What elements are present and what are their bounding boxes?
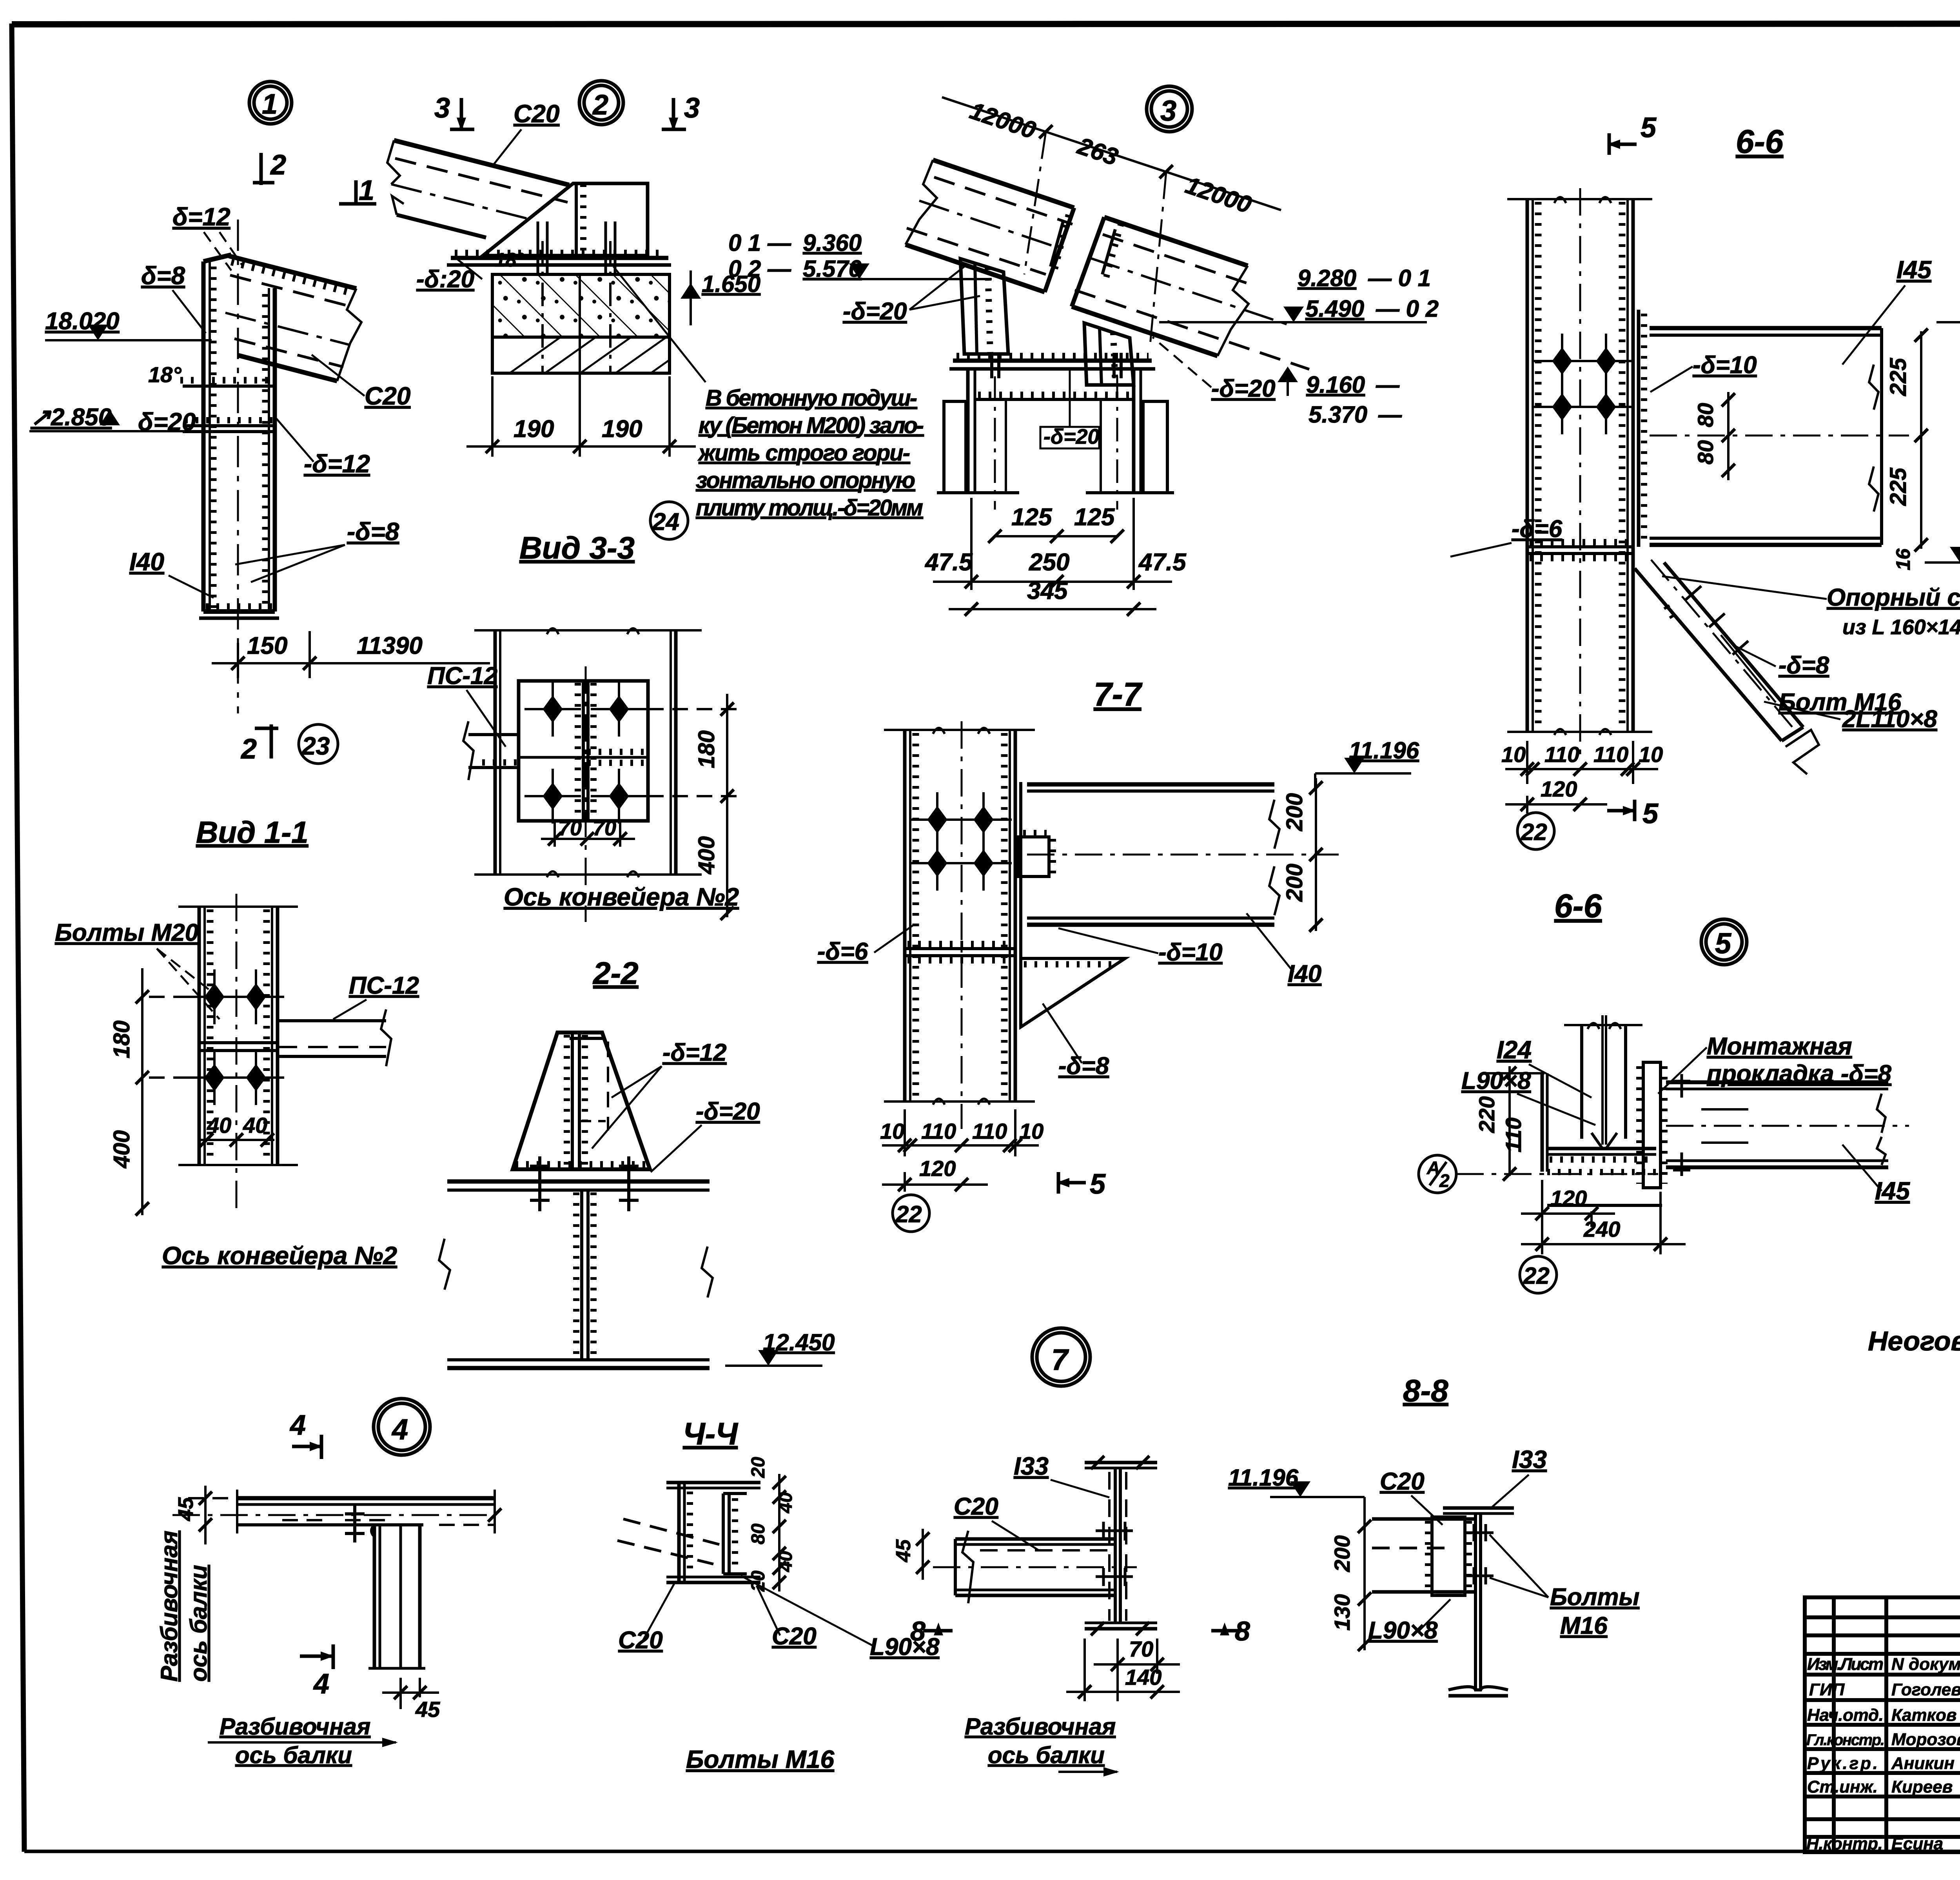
column bottom — [199, 606, 279, 618]
beam I45 — [1650, 328, 1909, 545]
svg-text:Болты М20: Болты М20 — [55, 919, 198, 946]
section mark 2 top — [253, 153, 274, 185]
svg-text:110: 110 — [1544, 742, 1579, 767]
svg-text:1: 1 — [359, 175, 374, 206]
svg-text:ось балки: ось балки — [988, 1742, 1105, 1768]
svg-text:δ=8: δ=8 — [141, 261, 185, 290]
svg-text:345: 345 — [1027, 577, 1068, 604]
svg-text:А: А — [1426, 1158, 1440, 1178]
column I40 — [203, 220, 275, 713]
dims 190 190 — [466, 274, 696, 457]
member from left — [463, 721, 519, 780]
connection plate hatched — [1428, 1517, 1469, 1595]
svg-text:110: 110 — [1593, 742, 1628, 767]
svg-text:23: 23 — [301, 732, 330, 760]
svg-text:40: 40 — [775, 1492, 796, 1513]
anchor bolts — [538, 221, 615, 372]
svg-text:8-8: 8-8 — [1403, 1373, 1448, 1408]
svg-text:-δ=20: -δ=20 — [843, 298, 907, 325]
svg-text:N докум.: N докум. — [1891, 1655, 1960, 1674]
svg-text:24: 24 — [652, 508, 679, 535]
inclined beam — [387, 140, 569, 238]
svg-text:I33: I33 — [1512, 1445, 1547, 1474]
svg-text:Неоговоренные болты - М20.: Неоговоренные болты - М20. — [1868, 1326, 1960, 1356]
gusset under beam — [1021, 958, 1125, 1027]
base plate — [447, 253, 671, 265]
svg-text:4: 4 — [391, 1413, 408, 1446]
top dimension line 12000 / 263 / 12000 — [942, 97, 1281, 210]
dims 47.5 250 47.5 — [933, 498, 1172, 590]
svg-text:0 1 —: 0 1 — — [728, 230, 791, 256]
bottom dims 120 240 — [1521, 1180, 1686, 1254]
dims 70 140 — [1066, 1639, 1180, 1701]
svg-text:190: 190 — [514, 416, 554, 443]
section mark 5 top — [1609, 133, 1637, 155]
svg-text:ось балки: ось балки — [185, 1565, 212, 1682]
A/2 axis — [1419, 1155, 1456, 1193]
svg-text:-δ=8: -δ=8 — [1779, 652, 1829, 679]
svg-text:2: 2 — [240, 733, 257, 765]
svg-text:18°: 18° — [495, 249, 525, 271]
svg-text:I45: I45 — [1896, 256, 1932, 284]
svg-text:7-7: 7-7 — [1094, 676, 1143, 713]
bolts — [524, 682, 581, 737]
connection square — [1018, 833, 1053, 876]
svg-text:22: 22 — [1523, 1263, 1550, 1289]
svg-text:ГИП: ГИП — [1809, 1680, 1845, 1699]
svg-text:-δ=12: -δ=12 — [662, 1039, 727, 1066]
svg-text:80: 80 — [748, 1523, 769, 1544]
svg-text:120: 120 — [919, 1156, 956, 1181]
svg-text:Вид 3-3: Вид 3-3 — [519, 530, 635, 565]
dims right 20 40 80 40 20 — [778, 1474, 780, 1591]
node circle 4 — [374, 1399, 430, 1455]
circle 22 — [1520, 1256, 1557, 1293]
svg-text:400: 400 — [694, 836, 719, 875]
bolts — [1466, 1524, 1494, 1584]
svg-text:400: 400 — [109, 1130, 134, 1169]
svg-text:-δ=20: -δ=20 — [1044, 425, 1100, 448]
svg-text:200: 200 — [1282, 793, 1307, 831]
svg-text:9.280: 9.280 — [1298, 265, 1356, 291]
svg-text:120: 120 — [1550, 1186, 1587, 1210]
circle 22 — [893, 1195, 929, 1232]
svg-text:— 0 1: — 0 1 — [1368, 265, 1431, 291]
svg-text:-δ=10: -δ=10 — [1693, 352, 1757, 379]
svg-text:9.160: 9.160 — [1306, 372, 1365, 398]
dim 345 — [949, 608, 1156, 610]
node circle 1 — [249, 82, 292, 124]
section mark 4 bottom — [300, 1644, 333, 1669]
svg-text:3: 3 — [1160, 94, 1176, 127]
svg-text:70: 70 — [558, 817, 582, 840]
svg-text:—: — — [1378, 401, 1402, 428]
svg-text:Киреев: Киреев — [1891, 1777, 1953, 1797]
svg-text:5: 5 — [1715, 927, 1732, 960]
bolts on flange — [530, 1156, 639, 1211]
svg-text:5: 5 — [1090, 1169, 1106, 1200]
svg-text:4: 4 — [289, 1410, 306, 1441]
svg-text:I40: I40 — [129, 548, 164, 576]
svg-text:5.490: 5.490 — [1305, 296, 1364, 322]
right dims 200 200 — [1315, 778, 1317, 931]
dims 45 left — [188, 1486, 243, 1544]
svg-text:140: 140 — [1125, 1665, 1161, 1689]
connection plate -δ=10 — [1639, 310, 1644, 547]
svg-text:-δ=10: -δ=10 — [1158, 939, 1223, 966]
svg-text:10: 10 — [1019, 1119, 1044, 1143]
svg-text:прокладка -δ=8: прокладка -δ=8 — [1707, 1060, 1892, 1087]
svg-text:110: 110 — [972, 1119, 1007, 1143]
svg-text:125: 125 — [1074, 504, 1115, 531]
svg-text:150: 150 — [247, 632, 287, 659]
svg-text:δ=12: δ=12 — [172, 203, 230, 231]
section mark 2 bottom with circle 23 — [255, 724, 278, 759]
bolt on beam — [345, 1505, 365, 1542]
svg-text:250: 250 — [1029, 549, 1069, 576]
node circle 3 — [1147, 86, 1192, 132]
C20 beam from left — [933, 1531, 1137, 1603]
vertical bracket — [368, 1525, 425, 1668]
dims 225 225 right — [1920, 331, 1922, 549]
svg-text:18°: 18° — [148, 362, 181, 387]
gusset -δ=8 trapezoid — [483, 183, 648, 256]
svg-text:8: 8 — [910, 1616, 926, 1646]
note text block — [613, 267, 924, 521]
I33 column — [1085, 1456, 1157, 1635]
middle connection plate — [1639, 1062, 1664, 1188]
svg-text:70: 70 — [1129, 1637, 1153, 1661]
svg-text:20: 20 — [748, 1457, 769, 1478]
svg-text:225: 225 — [1886, 357, 1911, 396]
vertical stub I24 — [1564, 1015, 1642, 1149]
svg-text:-δ=8: -δ=8 — [347, 517, 399, 546]
node circle 2 — [579, 81, 623, 125]
bottom dims 10 110 110 10 / 120 — [882, 1109, 1039, 1192]
bottom dims 150 / 11390 — [212, 631, 490, 678]
svg-text:2: 2 — [1439, 1170, 1450, 1191]
left end plate — [1542, 1073, 1547, 1172]
svg-text:Разбивочная: Разбивочная — [156, 1531, 182, 1682]
dims left 200 130 — [1363, 1497, 1366, 1650]
svg-text:I33: I33 — [1014, 1452, 1049, 1480]
svg-text:Рук.гр.: Рук.гр. — [1807, 1754, 1878, 1773]
svg-text:3: 3 — [684, 93, 700, 124]
svg-text:В бетонную подуш-: В бетонную подуш- — [706, 385, 917, 411]
svg-text:2-2: 2-2 — [592, 956, 639, 991]
member to right ПС-12 — [278, 1009, 391, 1066]
svg-text:16: 16 — [1892, 548, 1914, 570]
svg-text:Морозова: Морозова — [1891, 1730, 1960, 1749]
svg-text:10: 10 — [1501, 742, 1526, 767]
right beam — [1072, 217, 1309, 369]
svg-text:-δ=6: -δ=6 — [817, 938, 868, 965]
svg-text:200: 200 — [1330, 1535, 1354, 1572]
section mark 5 bottom — [1607, 800, 1635, 821]
svg-text:— 0 2: — 0 2 — [1376, 296, 1439, 322]
svg-text:Ось конвейера №2: Ось конвейера №2 — [162, 1241, 397, 1270]
svg-text:225: 225 — [1886, 467, 1911, 506]
-δ=20 box label — [1040, 369, 1099, 448]
base plate — [949, 356, 1155, 369]
svg-text:Ось конвейера №2: Ось конвейера №2 — [504, 883, 739, 911]
svg-text:Ст.инж.: Ст.инж. — [1807, 1777, 1878, 1797]
svg-text:5.370: 5.370 — [1308, 401, 1367, 428]
bottom dims — [1505, 741, 1658, 813]
right gusset on base — [1084, 323, 1134, 385]
svg-text:8: 8 — [1235, 1616, 1250, 1646]
section mark 5 — [1058, 1172, 1086, 1194]
dim 45 left — [922, 1529, 924, 1580]
svg-text:Есина: Есина — [1891, 1834, 1943, 1853]
column splice -δ=6 — [1527, 542, 1633, 558]
svg-text:Вид 1-1: Вид 1-1 — [196, 815, 309, 849]
bolts small — [1673, 1074, 1690, 1176]
dims 70 70 — [541, 821, 635, 847]
svg-text:40: 40 — [207, 1113, 231, 1138]
svg-text:—: — — [1376, 372, 1400, 398]
svg-text:из L 160×14: из L 160×14 — [1842, 615, 1960, 639]
svg-text:I24: I24 — [1497, 1036, 1532, 1064]
angles and plate — [666, 1483, 760, 1582]
left beam — [906, 160, 1074, 292]
svg-text:I40: I40 — [1288, 960, 1321, 987]
svg-text:-δ=8: -δ=8 — [1058, 1053, 1109, 1080]
svg-text:130: 130 — [1330, 1594, 1354, 1631]
right dims 180 400 — [648, 694, 745, 917]
svg-text:δ=20: δ=20 — [138, 408, 196, 436]
bolts — [909, 792, 965, 847]
svg-text:жить строго гори-: жить строго гори- — [697, 440, 910, 466]
I33 column — [1443, 1508, 1514, 1696]
dims 125 125 — [995, 535, 1117, 537]
svg-text:Монтажная: Монтажная — [1707, 1033, 1852, 1060]
svg-text:110: 110 — [921, 1119, 956, 1143]
svg-text:240: 240 — [1583, 1217, 1620, 1241]
right beam I45 — [1666, 1082, 1909, 1167]
signature table — [1805, 1597, 1960, 1852]
svg-text:М16: М16 — [1560, 1612, 1608, 1639]
svg-text:5: 5 — [1641, 112, 1657, 143]
svg-text:180: 180 — [694, 730, 719, 768]
C20 dashed channel from upper left — [617, 1519, 719, 1564]
svg-text:Разбивочная: Разбивочная — [220, 1713, 370, 1740]
svg-text:190: 190 — [602, 416, 642, 443]
svg-text:Опорный столик: Опорный столик — [1827, 584, 1960, 611]
left dims 220 110 — [1486, 1066, 1544, 1176]
beam I40 — [1027, 784, 1339, 925]
svg-text:Аникин: Аникин — [1891, 1754, 1955, 1773]
dim 45 bottom — [382, 1678, 439, 1709]
svg-text:С20: С20 — [618, 1627, 663, 1654]
circle 24 — [650, 502, 688, 539]
circle 22 — [1517, 813, 1554, 849]
bolts at connection — [1096, 1522, 1133, 1586]
svg-text:200: 200 — [1282, 864, 1307, 902]
svg-text:47.5: 47.5 — [924, 549, 973, 576]
svg-text:220: 220 — [1474, 1096, 1499, 1133]
svg-text:10: 10 — [1639, 742, 1663, 767]
top beam — [172, 1490, 501, 1533]
support bracket diagonal — [1635, 560, 1819, 774]
svg-text:0 2 —: 0 2 — — [728, 256, 791, 282]
svg-text:-δ=20: -δ=20 — [1211, 375, 1276, 402]
horizontal member — [1547, 1149, 1662, 1205]
column — [178, 894, 298, 1215]
left dims 180 400 — [142, 968, 199, 1215]
svg-text:Ч-Ч: Ч-Ч — [683, 1416, 739, 1451]
svg-text:2L110×8: 2L110×8 — [1842, 706, 1937, 733]
trapezoid gusset — [513, 1033, 650, 1169]
svg-text:2: 2 — [270, 149, 286, 181]
svg-text:11.196: 11.196 — [1228, 1464, 1299, 1491]
svg-text:Гоголев: Гоголев — [1891, 1680, 1960, 1699]
svg-text:47.5: 47.5 — [1138, 549, 1187, 576]
svg-text:125: 125 — [1011, 504, 1053, 531]
column flanges — [474, 628, 702, 877]
svg-text:7: 7 — [1051, 1343, 1069, 1377]
svg-text:С20: С20 — [954, 1493, 998, 1520]
svg-text:Разбивочная: Разбивочная — [965, 1713, 1116, 1740]
svg-text:ПС-12: ПС-12 — [427, 662, 497, 690]
svg-text:I45: I45 — [1875, 1177, 1910, 1205]
svg-text:4: 4 — [313, 1668, 329, 1700]
C20 from left — [1372, 1519, 1475, 1592]
svg-text:зонтально опорную: зонтально опорную — [696, 468, 915, 493]
svg-text:9.360: 9.360 — [803, 230, 862, 256]
section mark 1 — [339, 180, 376, 204]
svg-text:18.020: 18.020 — [45, 308, 120, 335]
base strip of trapezoid — [513, 1164, 650, 1169]
svg-text:-δ=12: -δ=12 — [304, 450, 370, 478]
support pedestal — [937, 353, 1174, 510]
bolts — [186, 969, 243, 1024]
bolts — [1534, 334, 1590, 388]
svg-text:Болты М16: Болты М16 — [686, 1745, 834, 1773]
svg-text:ку (Бетон М200) зало-: ку (Бетон М200) зало- — [699, 413, 924, 438]
svg-text:22: 22 — [895, 1201, 922, 1227]
section mark 8 left — [923, 1629, 953, 1633]
svg-text:-δ:20: -δ:20 — [416, 266, 474, 293]
svg-text:Катков: Катков — [1891, 1706, 1956, 1725]
svg-text:45: 45 — [174, 1497, 198, 1521]
svg-text:6-6: 6-6 — [1736, 123, 1784, 160]
svg-text:120: 120 — [1541, 777, 1577, 801]
svg-text:-δ=6: -δ=6 — [1512, 515, 1563, 543]
column — [1507, 188, 1652, 757]
dims 80 80 — [1727, 392, 1730, 480]
svg-text:110: 110 — [1501, 1118, 1526, 1152]
center line — [585, 666, 587, 922]
left gusset on base — [960, 259, 1008, 354]
svg-text:С20: С20 — [514, 100, 559, 128]
svg-text:45: 45 — [415, 1697, 440, 1722]
svg-text:L90×8: L90×8 — [870, 1633, 940, 1660]
svg-text:С20: С20 — [365, 382, 410, 410]
svg-text:80: 80 — [1693, 403, 1718, 427]
svg-text:Болты: Болты — [1550, 1584, 1639, 1611]
svg-text:Нач.отд.: Нач.отд. — [1807, 1706, 1884, 1725]
svg-text:180: 180 — [109, 1020, 134, 1058]
svg-text:L90×8: L90×8 — [1461, 1067, 1531, 1094]
svg-text:6-6: 6-6 — [1554, 887, 1602, 924]
svg-text:Гл.констр.: Гл.констр. — [1806, 1731, 1885, 1749]
svg-text:ось балки: ось балки — [235, 1742, 352, 1768]
section mark 8 right — [1211, 1629, 1241, 1633]
column splice / level 2.850 — [29, 380, 275, 432]
svg-text:3: 3 — [434, 93, 450, 124]
svg-text:Н.контр.: Н.контр. — [1806, 1834, 1883, 1853]
svg-text:45: 45 — [892, 1539, 915, 1562]
svg-text:С20: С20 — [1380, 1468, 1425, 1495]
svg-text:плиту толщ.-δ=20мм: плиту толщ.-δ=20мм — [696, 495, 923, 521]
beam C20 inclined — [225, 256, 361, 381]
svg-text:40: 40 — [243, 1113, 267, 1138]
svg-text:↗2.850: ↗2.850 — [31, 404, 112, 431]
svg-text:70: 70 — [593, 817, 616, 840]
svg-text:10: 10 — [880, 1119, 904, 1143]
svg-text:11390: 11390 — [357, 632, 423, 659]
svg-text:40: 40 — [775, 1551, 796, 1572]
svg-text:2: 2 — [592, 89, 608, 121]
plate ПС-12 — [519, 681, 648, 821]
svg-text:-δ=20: -δ=20 — [696, 1098, 760, 1125]
concrete foundation — [492, 274, 670, 373]
svg-text:5: 5 — [1642, 798, 1659, 829]
svg-text:22: 22 — [1521, 819, 1547, 845]
svg-text:С20: С20 — [772, 1623, 817, 1650]
svg-text:Изм.Лист: Изм.Лист — [1807, 1655, 1884, 1674]
svg-text:80: 80 — [1693, 440, 1718, 465]
svg-text:1: 1 — [262, 89, 278, 120]
svg-text:ПС-12: ПС-12 — [349, 972, 419, 999]
beam flange — [439, 1181, 713, 1368]
column — [884, 721, 1035, 1129]
